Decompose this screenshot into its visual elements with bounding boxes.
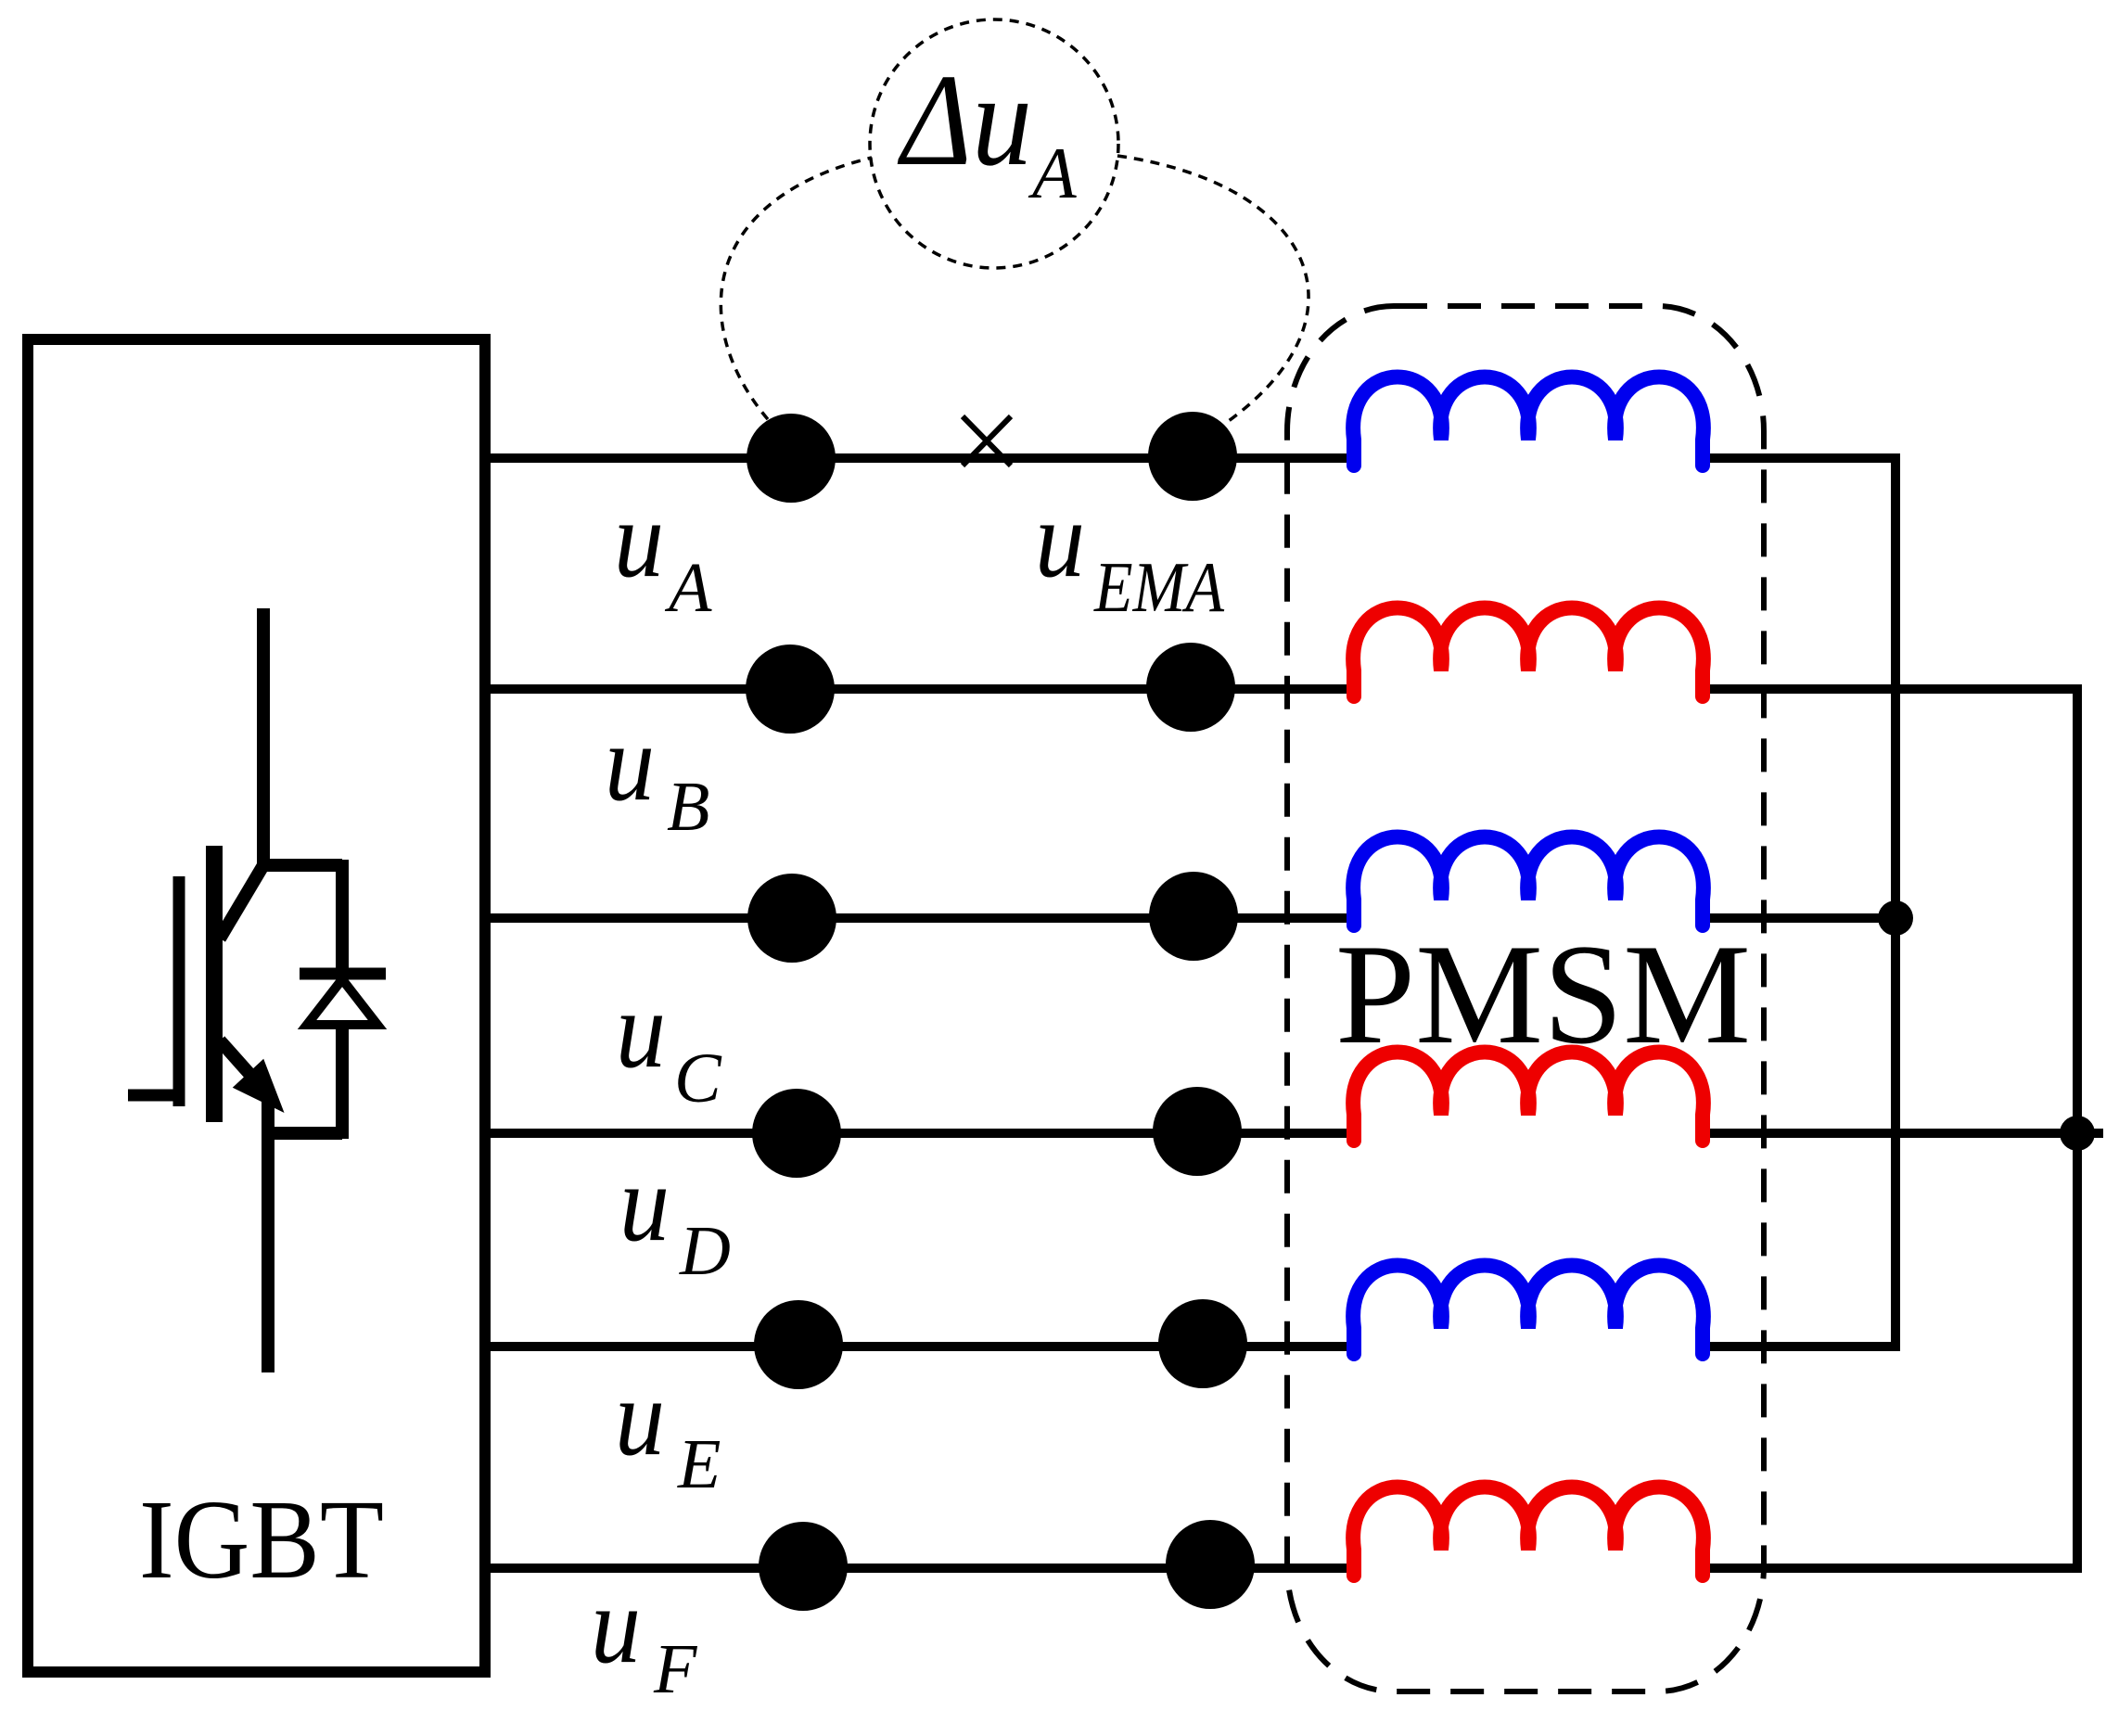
terminal node A1: [747, 414, 836, 503]
svg-text:E: E: [677, 1425, 721, 1503]
inductor LB (red): [1353, 608, 1704, 697]
svg-text:A: A: [664, 549, 712, 627]
terminal node B2: [1146, 643, 1235, 732]
node C-bus1 junction: [1878, 900, 1913, 936]
transistor Q1 emitter lead: [262, 1102, 274, 1372]
inductor LD (red): [1353, 1053, 1704, 1142]
diode D1 triangle: [307, 979, 377, 1025]
svg-text:B: B: [667, 768, 709, 846]
transistor Q1 gate lead: [128, 1090, 179, 1102]
svg-text:u: u: [615, 1356, 665, 1478]
diode D1 anode lead: [336, 1025, 349, 1139]
diode D1 cathode bar: [300, 968, 386, 980]
svg-text:Δu: Δu: [897, 46, 1032, 193]
svg-text:u: u: [619, 1142, 670, 1264]
inductor LA (blue): [1353, 377, 1704, 466]
diode D1 top connection: [263, 859, 342, 872]
wire phase A right + right bus 1 + wire phase E right: [1697, 458, 1896, 1347]
inductor LE (blue): [1353, 1266, 1704, 1355]
diode D1 cathode lead: [336, 860, 349, 974]
terminal node E2: [1158, 1299, 1247, 1388]
wire phase E left: [485, 1342, 1356, 1351]
terminal node B1: [746, 645, 835, 734]
diode D1 bottom connection: [268, 1127, 342, 1140]
transistor Q1 collector-bar diagonal: [220, 865, 263, 938]
voltmeter circle delta-uA: [870, 19, 1118, 268]
svg-text:u: u: [1035, 478, 1085, 600]
wire phase A left: [485, 453, 1356, 463]
terminal node F2: [1166, 1520, 1255, 1609]
terminal node F1: [759, 1522, 848, 1611]
multiply cross mark: [963, 416, 1011, 466]
terminal node C2: [1149, 872, 1238, 961]
terminal node A2: [1148, 412, 1237, 501]
wire phase C right: [1697, 913, 1896, 923]
transistor Q1 body bar: [206, 846, 223, 1122]
terminal node D2: [1153, 1087, 1242, 1176]
inductor LF (red): [1353, 1487, 1704, 1576]
transistor Q1 emitter diagonal: [220, 1040, 258, 1083]
svg-text:A: A: [1028, 133, 1077, 213]
measurement lead right (dashed): [1117, 156, 1308, 443]
svg-text:u: u: [614, 478, 664, 600]
svg-text:IGBT: IGBT: [139, 1477, 384, 1602]
wire phase D right: [1697, 1129, 2103, 1138]
svg-text:D: D: [679, 1212, 731, 1290]
wire phase C left: [485, 913, 1356, 923]
svg-text:u: u: [591, 1564, 641, 1686]
wire phase F left: [485, 1564, 1356, 1573]
transistor Q1 collector lead: [257, 608, 270, 865]
terminal node C1: [747, 874, 836, 963]
svg-text:u: u: [616, 968, 666, 1091]
terminal node D1: [752, 1089, 841, 1178]
svg-text:F: F: [653, 1630, 698, 1708]
wire phase B right + right bus 2 + wire phase F right: [1697, 689, 2077, 1568]
wire phase D left: [485, 1129, 1356, 1138]
measurement lead left (dashed): [721, 158, 872, 443]
svg-text:C: C: [674, 1040, 722, 1117]
wire phase B left: [485, 684, 1356, 694]
svg-text:EMA: EMA: [1093, 547, 1225, 627]
node D-bus2 junction: [2060, 1116, 2095, 1151]
inductor LC (blue): [1353, 837, 1704, 926]
PMSM dashed enclosure: [1287, 306, 1764, 1691]
transistor Q1 gate bar: [173, 876, 185, 1106]
svg-text:u: u: [605, 701, 655, 823]
transistor Q1 emitter arrowhead: [237, 1064, 279, 1107]
IGBT inverter box: [28, 339, 485, 1672]
terminal node E1: [754, 1300, 843, 1389]
